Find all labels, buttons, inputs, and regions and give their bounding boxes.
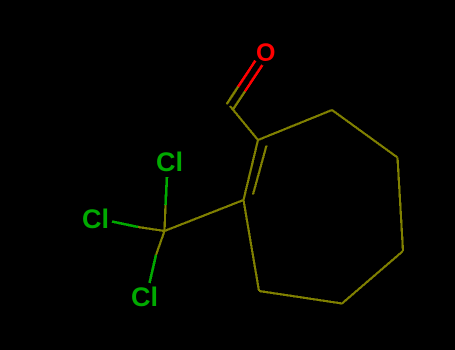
wire: ring edge B-C (right) [398, 158, 404, 252]
wire: ring edge C-D (bottom right) [342, 251, 403, 304]
wire: bond carbonyl C to ring C1 [230, 106, 258, 140]
svg-text:Cl: Cl [131, 282, 158, 312]
svg-text:Cl: Cl [156, 147, 183, 177]
svg-text:O: O [256, 39, 275, 67]
wire: ring edge E-C2 (bottom left) [244, 200, 260, 291]
wire: ring edge C1-A (top) [258, 110, 332, 140]
wire: bond Ct-Cl bottom, carbon half (olive) [156, 231, 165, 255]
wire: bond Ct-Cl top, chlorine half (green) [166, 177, 168, 205]
wire: C=O double bond carbon-side halves (olive) [227, 87, 245, 109]
wire: bond Ct-Cl left, carbon half (olive) [138, 227, 165, 231]
wire: ring edge C1-C2 (outer line of C1=C2 double bond) [244, 140, 259, 200]
svg-text:Cl: Cl [82, 204, 109, 234]
wire: ring edge D-E (bottom) [259, 291, 342, 304]
wire: bond Ct-Cl left, chlorine half (green) [112, 222, 138, 228]
wire: inner line of C1=C2 double bond [253, 146, 267, 195]
wire: bond C2 to CCl3 carbon [165, 200, 244, 231]
wire: bond Ct-Cl bottom, chlorine half (green) [150, 255, 157, 283]
wire: ring edge A-B (top right) [332, 110, 398, 158]
wire: bond Ct-Cl top, carbon half (olive) [165, 205, 166, 231]
wire: C=O double bond oxygen-side halves (red) [238, 61, 262, 92]
